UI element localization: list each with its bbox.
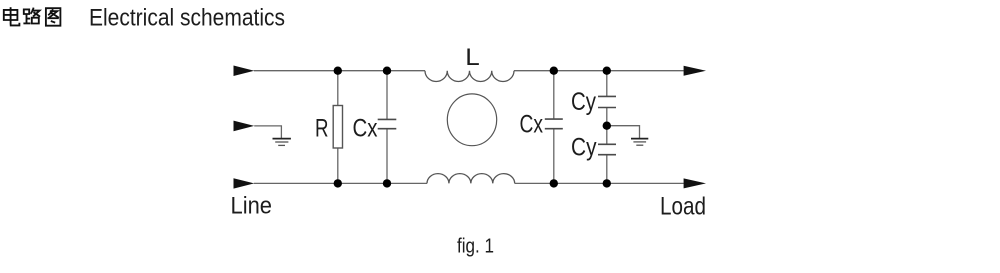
svg-text:Load: Load [660,193,706,221]
svg-text:Line: Line [231,193,273,220]
svg-text:Cy: Cy [571,134,597,162]
svg-text:Cx: Cx [353,115,378,143]
svg-text:Electrical schematics: Electrical schematics [89,5,285,32]
svg-text:L: L [465,44,480,71]
svg-text:R: R [315,115,329,143]
svg-text:Cy: Cy [571,88,596,116]
svg-text:Cx: Cx [520,111,544,139]
svg-text:fig. 1: fig. 1 [457,236,494,258]
